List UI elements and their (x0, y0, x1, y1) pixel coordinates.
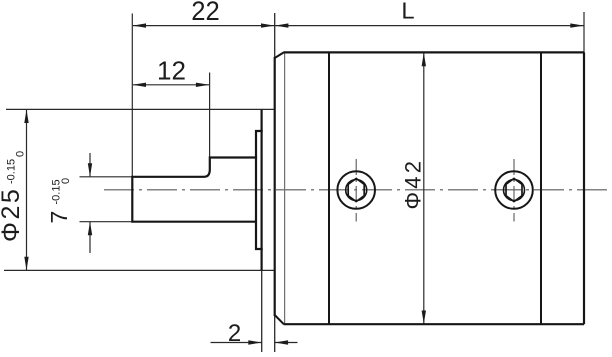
chamfer bottom (275, 315, 284, 324)
svg-text:2: 2 (228, 320, 241, 347)
extension line 22/12 left (131, 14, 133, 178)
body front face (274, 57, 276, 316)
body section line 2 (540, 52, 542, 324)
collar front face (256, 131, 262, 249)
body section line 1 (328, 52, 330, 324)
svg-text:Φ25: Φ25 (0, 187, 25, 242)
dimension 22 line (133, 25, 275, 27)
dimension 7 line top (89, 153, 91, 176)
screw 2 head circle (504, 180, 525, 201)
svg-text:0: 0 (15, 151, 27, 157)
screw 2 outer circle (495, 171, 533, 209)
extension line 12 right (209, 73, 211, 159)
screw 1 head circle (346, 180, 367, 201)
svg-text:12: 12 (157, 55, 186, 85)
body bottom edge (284, 323, 584, 325)
chamfer top (275, 52, 284, 58)
boss front face (261, 109, 263, 270)
screw 1 hex socket (348, 178, 364, 201)
extension line 7 bottom (80, 221, 133, 223)
dimension 7 line bottom (89, 222, 91, 253)
extension line phi25 bottom (4, 269, 275, 271)
dimension phi42 line (423, 53, 425, 324)
dimension L line (275, 25, 584, 27)
dimension phi25 line (26, 110, 28, 271)
screw 2 center mark vertical (513, 159, 515, 222)
dimension 2 line right (275, 342, 298, 344)
screw 1 outer circle (337, 171, 375, 209)
dimension 12 line (133, 84, 209, 86)
chamfer tangent line (284, 53, 286, 324)
screw 2 hex socket (506, 178, 522, 201)
svg-text:22: 22 (191, 0, 220, 26)
shaft outline (132, 158, 256, 222)
extension line 7 top (80, 176, 133, 178)
body top edge (284, 51, 584, 53)
extension line phi25 top (6, 108, 275, 110)
body right edge (583, 52, 585, 324)
svg-text:-0.15: -0.15 (5, 159, 17, 184)
extension line 2 left (261, 270, 263, 352)
centerline main horizontal (104, 189, 609, 191)
screw 1 center mark vertical (355, 159, 357, 222)
svg-text:7: 7 (46, 211, 72, 224)
svg-text:L: L (401, 0, 414, 23)
extension line body right (583, 12, 585, 53)
svg-text:-0.15: -0.15 (51, 179, 63, 204)
extension line body front face thin (274, 13, 276, 352)
dimension 2 line left (211, 342, 262, 344)
svg-text:Φ42: Φ42 (401, 158, 426, 210)
